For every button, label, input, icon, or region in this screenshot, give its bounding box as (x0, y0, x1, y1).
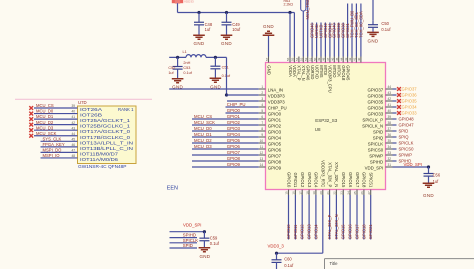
wire GPIO40 net (333, 23, 335, 57)
wire top pin 51 U0RXD (308, 57, 315, 80)
svg-text:GPIO17: GPIO17 (354, 224, 359, 240)
wire to C50 (372, 0, 374, 20)
svg-text:IOT25A/GCLKT_1: IOT25A/GCLKT_1 (80, 118, 131, 123)
wire FPGA pin 44 MCU_SCK (34, 131, 78, 136)
capacitor C52/C53 (168, 57, 192, 78)
node label U7D (78, 100, 87, 105)
node label GPIO48 (399, 117, 415, 122)
svg-text:GPIO8: GPIO8 (227, 156, 241, 161)
svg-text:C51: C51 (222, 66, 229, 70)
svg-text:VDD_SPI: VDD_SPI (404, 162, 422, 167)
node VDD_SPI stub junction (203, 230, 206, 233)
svg-text:GPIO36: GPIO36 (402, 93, 418, 98)
svg-text:VDD3_3: VDD3_3 (268, 244, 285, 249)
svg-text:GPIO0: GPIO0 (268, 111, 282, 116)
node label U0RXD (314, 24, 319, 38)
svg-text:53: 53 (300, 57, 304, 61)
node label GPIO13 (307, 224, 312, 240)
svg-text:1uf: 1uf (205, 27, 212, 32)
svg-text:GPIO34: GPIO34 (402, 105, 418, 110)
svg-text:MCU_D2: MCU_D2 (194, 138, 212, 143)
svg-text:GPIO48: GPIO48 (399, 117, 415, 122)
svg-text:MTCK: MTCK (337, 65, 342, 77)
svg-text:18: 18 (305, 191, 309, 195)
node label GPIO33 (orange) (397, 111, 417, 116)
svg-text:GND: GND (266, 65, 271, 75)
wire TCH_IIC_SDA net (360, 4, 362, 57)
svg-text:43: 43 (344, 57, 348, 61)
node label SPICLK (399, 141, 414, 146)
svg-text:55: 55 (291, 57, 295, 61)
wire bottom pin 17 GPIO12 (298, 172, 305, 239)
pin name IOT17A/GCLKT_0 (80, 129, 131, 134)
op-amp U8 ESP32_S3 body (266, 63, 386, 190)
svg-text:9: 9 (261, 133, 263, 137)
power symbol VDD33 (172, 0, 194, 4)
svg-text:IOT11A/M0/D6: IOT11A/M0/D6 (80, 157, 119, 162)
wire 3V3 rail (178, 12, 295, 14)
svg-text:GW1NSR-4C QFN48P: GW1NSR-4C QFN48P (78, 164, 127, 169)
wire bottom pin 21 XTAL_32K_P (326, 162, 333, 239)
wire FPGA pin 48 MSPI_IO (41, 153, 78, 158)
node label GPIO40 (332, 22, 337, 38)
svg-text:GPIO4: GPIO4 (268, 135, 282, 140)
svg-text:GPIO14: GPIO14 (314, 172, 319, 188)
node label GPIO41 (327, 22, 332, 38)
svg-text:24: 24 (346, 191, 350, 195)
svg-text:GPIO14: GPIO14 (313, 224, 318, 240)
node label XTAL_32K_N (334, 214, 339, 239)
svg-text:8: 8 (261, 127, 263, 131)
svg-text:10uf: 10uf (232, 27, 241, 32)
wire GPIO38 net (342, 23, 344, 57)
svg-text:21: 21 (326, 191, 330, 195)
pin name IOT25A/GCLKT_1 (80, 118, 131, 123)
svg-text:ESP32_S3: ESP32_S3 (315, 118, 338, 123)
wire left pin 13 GPIO8 (192, 157, 282, 164)
svg-text:GPIO10: GPIO10 (286, 172, 291, 188)
svg-text:MCU_D1: MCU_D1 (194, 132, 212, 137)
wire left pin 5 GPIO0 (226, 109, 282, 116)
svg-text:GPIO11: GPIO11 (293, 224, 298, 239)
svg-text:CHIP_PU: CHIP_PU (227, 102, 246, 107)
svg-text:GPIO1: GPIO1 (227, 114, 241, 119)
wire SPIHD stub (170, 237, 198, 239)
wire VDDA to rail (289, 13, 291, 57)
svg-text:GPIO9: GPIO9 (227, 162, 241, 167)
svg-text:U7D: U7D (78, 100, 87, 105)
svg-text:GPIO7: GPIO7 (268, 153, 282, 158)
svg-text:48: 48 (71, 154, 75, 158)
svg-text:IOT11B/M0/D7: IOT11B/M0/D7 (80, 151, 119, 156)
svg-text:SPIHD: SPIHD (183, 232, 196, 237)
node label GPIO0 (227, 108, 241, 113)
wire right pin 38 SPICLK_N (362, 121, 396, 128)
svg-text:GND: GND (221, 41, 232, 46)
node X MCU_D1 (29, 117, 33, 121)
svg-text:0.1uf: 0.1uf (183, 71, 192, 75)
svg-text:XTAL_32K_P: XTAL_32K_P (327, 214, 332, 239)
node label GPIO6 (227, 144, 241, 149)
wire bottom pin 23 GPIO15 (340, 172, 347, 239)
node label GPIO36 (orange) (397, 93, 417, 98)
node label MCU_D3 (194, 144, 212, 149)
node label SPID (183, 243, 193, 248)
wire right pin 31 VDD_SPI (365, 163, 429, 170)
svg-text:IOT26A: IOT26A (80, 107, 102, 112)
wire top pin 54 XTAL_P (295, 57, 302, 81)
svg-text:GPIO37: GPIO37 (367, 87, 383, 92)
svg-text:GND: GND (423, 193, 434, 198)
wire bottom pin 26 GPIO18 (360, 172, 367, 239)
svg-text:SYS_CLK: SYS_CLK (43, 136, 62, 141)
svg-text:VDD33: VDD33 (184, 0, 194, 4)
wire TCH_FWU_B0 net (351, 4, 353, 57)
node label GPIO4 (227, 132, 241, 137)
wire top pin 52 GPIO46 (304, 57, 311, 81)
svg-text:RANK 1: RANK 1 (118, 107, 134, 112)
svg-text:GPIO0: GPIO0 (227, 108, 241, 113)
wire right pin 41 GPIO34 (367, 103, 396, 110)
wire FPGA pin 45 SYS_CLK (41, 136, 78, 141)
wire SPICLK stub (170, 242, 198, 244)
wire FPGA pin 40 MCU_D0 (34, 109, 78, 114)
svg-text:GPIO5: GPIO5 (227, 138, 241, 143)
wire VDD3_3 branch (277, 252, 323, 254)
node label GPIO21 (345, 22, 350, 38)
svg-text:GPIO9: GPIO9 (268, 165, 282, 170)
wire bottom pin 27 SPICS1 (367, 172, 374, 239)
wire left pin 1 LNA_IN (169, 85, 283, 92)
ground top pin 57 (265, 36, 272, 75)
svg-text:GPIO16: GPIO16 (348, 224, 353, 240)
title block (325, 259, 474, 269)
svg-text:49: 49 (317, 57, 321, 61)
wire bottom pin 15 GPIO10 (285, 172, 292, 239)
svg-text:SPICS1: SPICS1 (369, 172, 374, 188)
node label GPIO39 (336, 22, 341, 38)
svg-text:MSPI_DO: MSPI_DO (43, 148, 63, 153)
svg-text:GPIO18: GPIO18 (362, 172, 367, 188)
svg-text:MSPI_IO: MSPI_IO (43, 153, 61, 158)
node label VDD_SPI right (404, 162, 422, 167)
node L1 right (214, 56, 217, 59)
wire LNA filter top (169, 56, 226, 58)
wire FPGA pin 41 MCU_D1 (34, 114, 78, 119)
wire right pin 43 GPIO36 (367, 91, 396, 98)
node label MCU_D1 (194, 132, 212, 137)
svg-text:SPIHD: SPIHD (370, 159, 383, 164)
wire top pin 48 MTDI (322, 57, 329, 76)
svg-text:GPIO7: GPIO7 (227, 150, 241, 155)
wire SPID stub (170, 247, 198, 249)
node label TCH_IIC_SDA (358, 11, 363, 38)
svg-text:GPIO3: GPIO3 (227, 126, 241, 131)
wire FPGA pin 46 FPGA_KEY (41, 142, 78, 147)
node label GPIO17 (354, 224, 359, 240)
svg-text:36: 36 (388, 133, 392, 137)
capacitor C48 (194, 13, 213, 35)
node label GPIO3 (227, 126, 241, 131)
wire right pin 36 SPIQ (373, 133, 397, 140)
wire bottom pin 24 GPIO16 (346, 172, 353, 239)
svg-text:Title: Title (330, 261, 339, 266)
node label GPIO14 (313, 224, 318, 240)
node label SPIWP (399, 153, 413, 158)
svg-text:MCU_D3: MCU_D3 (194, 144, 212, 149)
wire left pin 9 GPIO4 (192, 133, 282, 140)
svg-text:14: 14 (260, 163, 264, 167)
capacitor C56 (424, 167, 441, 184)
svg-text:12: 12 (260, 151, 264, 155)
node label SPIQ (399, 135, 410, 140)
svg-text:47: 47 (326, 57, 330, 61)
wire right pin 34 SPICS0 (368, 145, 397, 152)
node label GPIO11 (293, 224, 298, 239)
svg-text:GPIO6: GPIO6 (227, 144, 241, 149)
svg-text:MCU_D0: MCU_D0 (194, 126, 212, 131)
svg-text:42: 42 (388, 97, 392, 101)
svg-text:GPIO35: GPIO35 (367, 99, 383, 104)
svg-text:XTAL_32K_N: XTAL_32K_N (334, 162, 339, 187)
svg-text:38: 38 (388, 121, 392, 125)
svg-text:43: 43 (71, 126, 75, 130)
svg-text:XTAL_32K_P: XTAL_32K_P (327, 162, 332, 187)
svg-text:MCU_D3: MCU_D3 (36, 125, 54, 130)
svg-text:SPIQ: SPIQ (373, 135, 384, 140)
svg-text:45: 45 (71, 137, 75, 141)
ground below C48 (193, 35, 205, 46)
svg-text:LNA_IN: LNA_IN (268, 87, 283, 92)
wire top pin 42 nc (348, 57, 352, 63)
node label GPIO9 (227, 162, 241, 167)
capacitor C51 (210, 57, 231, 77)
node label EEN (167, 186, 178, 192)
node label MCU_D0 (194, 126, 212, 131)
svg-text:44: 44 (339, 57, 343, 61)
svg-text:SPID: SPID (399, 129, 409, 134)
svg-text:1uf: 1uf (168, 71, 174, 75)
pin name IOT17B/GCLKC_0 (80, 135, 131, 140)
node rail-VDDA (288, 11, 291, 14)
wire top pin 46 MTDO (331, 57, 338, 79)
node label SPICLK (183, 238, 198, 243)
svg-text:7: 7 (261, 121, 263, 125)
wire FPGA pin 39 MCU_CS (34, 103, 78, 108)
svg-text:GPIO11: GPIO11 (293, 172, 298, 187)
svg-text:C50: C50 (381, 21, 389, 26)
svg-text:VDDA: VDDA (288, 65, 293, 77)
wire bottom pin 22 XTAL_32K_N (333, 162, 340, 239)
svg-text:GPIO34: GPIO34 (367, 105, 383, 110)
node X MCU_SCK (29, 134, 33, 138)
svg-text:XTAL_32K_N: XTAL_32K_N (334, 214, 339, 239)
node label SPID (399, 129, 409, 134)
node label GW1NSR-4C QFN48P (78, 164, 127, 169)
svg-text:C56: C56 (433, 172, 441, 177)
svg-text:15: 15 (285, 191, 289, 195)
svg-text:3: 3 (261, 97, 263, 101)
node label GPIO7 (227, 150, 241, 155)
svg-text:VDD3P3_RTC: VDD3P3_RTC (321, 160, 326, 187)
svg-text:17: 17 (298, 191, 302, 195)
wire GPIO21 net (347, 4, 349, 57)
wire top pin 53 XTAL_N (300, 57, 307, 81)
svg-text:GPIO13: GPIO13 (307, 224, 312, 240)
svg-text:VDD_SPI: VDD_SPI (365, 165, 384, 170)
wire left pin 7 GPIO2 (192, 121, 282, 128)
svg-text:SPICLK_N: SPICLK_N (362, 123, 383, 128)
svg-text:37: 37 (388, 127, 392, 131)
svg-text:U0RXD: U0RXD (310, 65, 315, 79)
svg-text:XTAL_N: XTAL_N (301, 65, 306, 81)
node L1 left (176, 56, 179, 59)
wire highlighted net (pink) (15, 98, 152, 100)
svg-text:41: 41 (388, 103, 392, 107)
svg-text:GPIO12: GPIO12 (300, 172, 305, 188)
svg-text:C60: C60 (284, 257, 292, 262)
svg-text:2nH: 2nH (183, 61, 190, 65)
wire top pin 56 VDDA (286, 57, 293, 78)
node VDD_SPI junction (427, 165, 430, 168)
wire TCH_IIC_SCL net (355, 4, 357, 57)
pin name IOT11A/M0/D6 (80, 157, 119, 162)
svg-text:41: 41 (353, 57, 357, 61)
svg-text:43: 43 (388, 91, 392, 95)
svg-text:48: 48 (322, 57, 326, 61)
svg-text:VDD3P3_CPU: VDD3P3_CPU (328, 65, 333, 92)
svg-text:44: 44 (71, 132, 75, 136)
node label U0TXD (318, 25, 323, 38)
pin name IOT26A (80, 107, 134, 112)
node label VDD3_3 (268, 244, 285, 249)
wire left pin 6 GPIO1 (192, 115, 282, 122)
svg-text:EEN: EEN (167, 186, 178, 192)
wire VDD_SPI stub (170, 231, 205, 233)
svg-text:VDD_SPI: VDD_SPI (183, 223, 201, 228)
wire top pin 41 nc (353, 57, 357, 63)
svg-text:0.1uf: 0.1uf (210, 241, 220, 246)
node label XTAL_32K_P (327, 214, 332, 239)
svg-text:C52: C52 (168, 66, 175, 70)
wire top pin 44 GPIO18 (339, 57, 346, 81)
svg-text:44: 44 (388, 85, 392, 89)
svg-text:GPIO46: GPIO46 (306, 65, 311, 81)
wire left pin 2 VDD3P3 (227, 91, 286, 98)
wire bottom pin 18 GPIO13 (305, 172, 312, 239)
ground symbol top (flipped) (263, 24, 275, 35)
svg-text:SPICLK: SPICLK (399, 141, 414, 146)
pin name IOT25B/GCLKC_1 (80, 124, 131, 129)
pin name IOT11B/M0/D7 (80, 151, 119, 156)
svg-text:IOT13B/LPLL_C_IN: IOT13B/LPLL_C_IN (80, 146, 133, 151)
wire top pin 45 MTCK (335, 57, 342, 78)
svg-text:GPIO47: GPIO47 (399, 123, 415, 128)
wire left pin 14 GPIO9 (192, 163, 282, 170)
node label GPIO46 (310, 22, 315, 38)
node label SPIHD (399, 159, 412, 164)
svg-text:IOT17A/GCLKT_0: IOT17A/GCLKT_0 (80, 129, 131, 134)
node label GPIO15 (341, 224, 346, 240)
wire power stem (177, 3, 179, 12)
svg-text:GPIO1: GPIO1 (268, 117, 282, 122)
inductor L1 2nH (183, 50, 207, 65)
node label GPIO18 (361, 224, 366, 240)
svg-text:IOT26B: IOT26B (80, 113, 102, 118)
wire right pin 39 SPICLK_P (362, 115, 396, 122)
svg-text:46: 46 (331, 57, 335, 61)
wire VDDA to rail (293, 13, 295, 57)
svg-text:MCU_D1: MCU_D1 (36, 114, 54, 119)
svg-text:IOT13A/LPLL_T_IN: IOT13A/LPLL_T_IN (80, 140, 133, 145)
svg-text:4: 4 (261, 103, 263, 107)
node label GPIO1 (227, 114, 241, 119)
ground below C50 (367, 32, 379, 43)
wire GPIO46 net (311, 23, 313, 57)
svg-text:MCU_SCK: MCU_SCK (194, 120, 215, 125)
node label MCU_CS (194, 114, 212, 119)
svg-text:56: 56 (286, 57, 290, 61)
wire bottom pin 19 GPIO14 (312, 172, 319, 239)
node VDD3P3 (225, 93, 228, 96)
svg-text:35: 35 (388, 139, 392, 143)
svg-text:SPICS0: SPICS0 (399, 147, 415, 152)
node rail-C48 (197, 11, 200, 14)
node label GPIO35 (orange) (397, 99, 417, 104)
node label VDD_SPI (183, 223, 201, 228)
svg-text:54: 54 (295, 57, 299, 61)
svg-text:MCU_CS: MCU_CS (194, 114, 212, 119)
svg-text:GPIO18: GPIO18 (341, 65, 346, 81)
wire top pin 47 VDD3P3_CPU (326, 57, 333, 93)
svg-text:GPIO15: GPIO15 (341, 172, 346, 188)
svg-text:34: 34 (388, 145, 392, 149)
svg-text:41: 41 (71, 115, 75, 119)
wire L1 to VDD3P3 (226, 57, 228, 95)
svg-text:42: 42 (348, 57, 352, 61)
svg-text:MCU_CS: MCU_CS (36, 103, 54, 108)
wire top pin 43 GPIO45 (344, 57, 351, 81)
svg-text:L1: L1 (183, 50, 187, 54)
wire top pin 49 MTMS (317, 57, 324, 78)
node X MCU_D3 (29, 128, 33, 132)
svg-text:45: 45 (335, 57, 339, 61)
svg-text:C48: C48 (205, 22, 213, 27)
svg-text:GPIO33: GPIO33 (402, 111, 418, 116)
node label GPIO42 (323, 22, 328, 38)
svg-text:25: 25 (353, 191, 357, 195)
svg-text:40: 40 (388, 109, 392, 113)
svg-text:GPIO21: GPIO21 (368, 224, 373, 240)
svg-text:52: 52 (304, 57, 308, 61)
svg-text:XTAL_P: XTAL_P (297, 65, 302, 80)
svg-text:SPID: SPID (183, 243, 193, 248)
node X MCU_CS (29, 106, 33, 110)
svg-text:MTDI: MTDI (323, 65, 328, 75)
node label SPICS0 (399, 147, 415, 152)
svg-text:GPIO45: GPIO45 (345, 65, 350, 81)
svg-text:GPIO8: GPIO8 (268, 159, 282, 164)
svg-text:VDDA: VDDA (292, 65, 297, 77)
wire left pin 8 GPIO3 (192, 127, 282, 134)
svg-text:10: 10 (260, 139, 264, 143)
svg-text:46: 46 (71, 143, 75, 147)
node label GPIO8 (227, 156, 241, 161)
svg-text:SPIWP: SPIWP (399, 153, 413, 158)
node X MCU_D2 (29, 123, 33, 127)
svg-text:VDD3P3: VDD3P3 (268, 93, 285, 98)
node label GPIO34 (orange) (397, 105, 417, 110)
